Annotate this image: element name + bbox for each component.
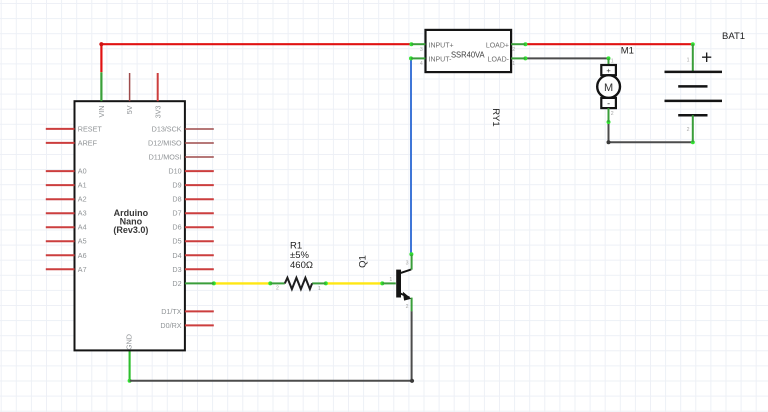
svg-text:D2: D2	[172, 279, 181, 288]
svg-text:INPUT-: INPUT-	[429, 57, 453, 64]
emitter line	[401, 294, 410, 298]
relay RY1 SSR40VA	[411, 30, 525, 127]
plate short	[678, 85, 707, 88]
svg-text:AREF: AREF	[78, 138, 98, 147]
svg-text:2: 2	[687, 127, 690, 133]
junction node at VIN	[99, 42, 103, 46]
svg-text:A3: A3	[78, 209, 87, 218]
motor body circle	[597, 75, 620, 98]
svg-text:D11/MOSI: D11/MOSI	[149, 153, 182, 162]
svg-text:2: 2	[276, 286, 279, 292]
left pin labels	[78, 124, 103, 273]
D2 pin (connected, green)	[185, 282, 214, 284]
svg-text:D5: D5	[172, 237, 181, 246]
+ terminal box	[601, 65, 616, 75]
wire: green from Arduino GND pin down	[128, 350, 132, 382]
wire: gray from Q1 emitter down to junction	[411, 311, 413, 381]
svg-text:+: +	[606, 66, 611, 75]
svg-text:M1: M1	[621, 46, 634, 57]
svg-text:A7: A7	[78, 265, 87, 274]
transistor Q1 (NPN)	[357, 254, 411, 311]
top pin labels (rotated)	[97, 105, 162, 118]
svg-text:1: 1	[687, 58, 690, 64]
bottom pin stub	[692, 115, 694, 142]
svg-text:2: 2	[512, 47, 515, 53]
resistor R1 ±5% 460Ω	[270, 240, 326, 292]
emitter pin stub	[411, 298, 413, 312]
svg-text:A6: A6	[78, 251, 87, 260]
right pins	[185, 129, 214, 157]
right pin labels	[148, 125, 182, 330]
wire: blue from relay INPUT- down to Q1 collector	[409, 56, 413, 256]
base pin stub	[382, 282, 396, 284]
svg-text:INPUT+: INPUT+	[429, 43, 454, 50]
collector line	[401, 269, 411, 273]
svg-text:1: 1	[318, 286, 321, 292]
wire: red from VIN node to relay INPUT+	[101, 42, 413, 46]
wire: yellow from R1 to Q1 base	[324, 281, 385, 285]
svg-text:A5: A5	[78, 237, 87, 246]
svg-text:+: +	[701, 47, 712, 68]
battery BAT1	[665, 31, 746, 142]
top pin stub	[692, 44, 694, 72]
svg-text:A2: A2	[78, 195, 87, 204]
junction node at emitter/GND wire	[410, 379, 414, 383]
svg-text:SSR40VA: SSR40VA	[451, 49, 485, 59]
svg-text:BAT1: BAT1	[722, 31, 745, 42]
svg-text:4: 4	[420, 61, 423, 67]
svg-text:-: -	[607, 98, 610, 108]
wire: red vertical into Arduino VIN pin	[100, 44, 102, 101]
svg-text:D13/SCK: D13/SCK	[152, 125, 182, 134]
svg-text:D12/MISO: D12/MISO	[148, 139, 182, 148]
svg-text:1: 1	[512, 61, 515, 67]
svg-text:460Ω: 460Ω	[290, 260, 313, 271]
svg-text:(Rev3.0): (Rev3.0)	[113, 225, 148, 235]
svg-text:1: 1	[611, 58, 614, 64]
input pin stubs	[411, 43, 425, 45]
svg-text:D0/RX: D0/RX	[160, 321, 181, 330]
base bar	[396, 270, 401, 298]
wire: red from relay LOAD+ to battery +	[523, 42, 694, 46]
plate long top	[665, 71, 723, 74]
svg-text:1: 1	[389, 277, 392, 283]
- terminal box	[601, 98, 616, 108]
svg-text:D9: D9	[172, 181, 181, 190]
svg-text:A1: A1	[78, 181, 87, 190]
top pins	[100, 73, 102, 101]
svg-text:5V: 5V	[125, 105, 134, 114]
svg-text:D6: D6	[172, 223, 181, 232]
load pin stubs	[511, 43, 525, 45]
motor M1	[597, 46, 634, 122]
svg-text:D4: D4	[172, 251, 181, 260]
svg-text:M: M	[604, 82, 613, 94]
wire: gray from motor - terminal down and right to battery -	[607, 120, 695, 144]
Arduino Nano A1	[46, 73, 214, 350]
wire: gray bottom from GND corner to emitter junction	[130, 380, 412, 382]
top pin stub	[608, 58, 610, 65]
svg-text:2: 2	[611, 111, 614, 117]
plate long	[665, 100, 723, 103]
left pins	[46, 129, 75, 269]
plate short bottom	[678, 114, 707, 117]
bottom pin stub	[608, 108, 610, 122]
svg-text:3V3: 3V3	[153, 106, 162, 119]
svg-text:2: 2	[406, 304, 409, 310]
collector pin stub	[411, 254, 413, 269]
svg-text:LOAD-: LOAD-	[488, 57, 510, 64]
svg-text:Q1: Q1	[357, 255, 368, 268]
svg-text:D8: D8	[172, 195, 181, 204]
svg-text:LOAD+: LOAD+	[486, 43, 509, 50]
svg-text:D1/TX: D1/TX	[161, 307, 182, 316]
svg-text:GND: GND	[125, 334, 134, 350]
svg-text:RY1: RY1	[490, 108, 501, 126]
svg-text:D3: D3	[172, 265, 181, 274]
title text	[113, 208, 148, 235]
wire: yellow from Arduino D2 to R1	[212, 281, 272, 285]
svg-text:D7: D7	[172, 209, 181, 218]
svg-text:D10: D10	[168, 167, 181, 176]
emitter arrow	[403, 292, 412, 301]
svg-text:RESET: RESET	[78, 124, 103, 133]
wire: gray from relay LOAD- to motor + terminal	[523, 56, 610, 60]
svg-text:3: 3	[420, 47, 423, 53]
svg-text:3: 3	[406, 261, 409, 267]
svg-text:A0: A0	[78, 167, 87, 176]
svg-text:A4: A4	[78, 223, 87, 232]
svg-text:VIN: VIN	[97, 106, 106, 118]
